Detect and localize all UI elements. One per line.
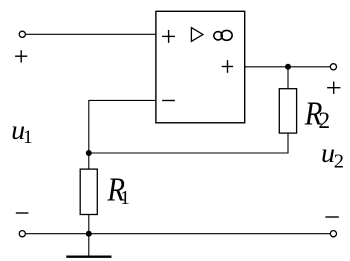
- label + polarity of u1: [15, 50, 27, 62]
- op-amp U1 non-inverting pin label +: [162, 30, 175, 43]
- wire input (top rail from input terminal to op-amp non-inverting input): [26, 33, 156, 35]
- label - polarity of u1: [16, 212, 29, 214]
- label u1: [11, 115, 32, 148]
- svg-text:1: 1: [120, 188, 130, 209]
- terminal negative (bottom-right): [330, 231, 336, 237]
- label u2: [321, 137, 344, 172]
- wire output (op-amp output to output terminal): [245, 66, 331, 68]
- wire feedback from inverting input left and down to node: [89, 100, 156, 153]
- op-amp U1 triangle symbol: [191, 28, 203, 42]
- resistor R1: [80, 169, 97, 214]
- wire from R2 bottom down and left to feedback node: [89, 133, 288, 153]
- wire from feedback node down to resistor R1: [88, 153, 90, 170]
- wire from R1 bottom to ground rail: [88, 215, 90, 234]
- svg-text:1: 1: [23, 127, 32, 148]
- wire from output node down to resistor R2: [287, 67, 289, 89]
- op-amp U1 body: [156, 11, 245, 123]
- op-amp U1 infinity symbol (ideal gain): [214, 30, 232, 40]
- op-amp U1 output polarity label +: [222, 60, 233, 73]
- wire bottom rail: [26, 233, 331, 235]
- svg-text:2: 2: [318, 108, 330, 134]
- label R1: [106, 170, 129, 208]
- svg-text:2: 2: [334, 151, 344, 173]
- ground: [66, 234, 111, 257]
- label R2: [304, 94, 330, 134]
- resistor R2: [279, 89, 296, 133]
- label - polarity of u2: [325, 216, 338, 218]
- terminal output positive (top-right): [330, 64, 336, 70]
- terminal input positive (top-left): [19, 31, 25, 37]
- label + polarity of u2: [327, 82, 340, 94]
- op-amp U1 inverting pin label -: [162, 100, 175, 102]
- node ground junction dot: [86, 231, 92, 237]
- terminal negative (bottom-left): [19, 231, 25, 237]
- node output junction dot: [285, 64, 291, 70]
- node feedback junction dot: [86, 150, 92, 156]
